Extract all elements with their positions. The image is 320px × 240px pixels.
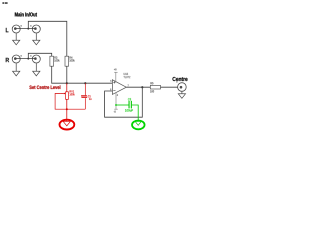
connector J2 L out xyxy=(32,25,40,33)
label TL072 xyxy=(123,76,130,78)
capacitor C3 xyxy=(129,101,131,109)
ground under J1 xyxy=(13,33,20,45)
pin number 6 xyxy=(110,89,111,91)
wire to C2 bottom xyxy=(67,108,86,110)
pin number 8 xyxy=(114,68,116,70)
label C2 value xyxy=(89,98,91,100)
label Set Centre Level xyxy=(29,85,60,89)
ground under J4 xyxy=(33,63,40,76)
connector J1 L tip xyxy=(12,25,20,33)
annotation green ellipse xyxy=(132,121,145,130)
pin number 7 xyxy=(128,85,129,87)
wire green to C3 xyxy=(116,104,129,106)
power pin 8 stub xyxy=(114,72,117,81)
power pin 4 stub xyxy=(114,93,117,110)
junction bus C2 xyxy=(84,82,86,84)
label Centre xyxy=(172,77,187,81)
junction L row xyxy=(27,28,29,30)
label R5 value xyxy=(150,90,154,92)
junction output xyxy=(141,86,143,88)
connector J5 Centre xyxy=(178,83,187,92)
label C2 xyxy=(88,95,91,97)
wire R3 to bus xyxy=(52,66,113,83)
wire R row xyxy=(15,58,35,60)
label R xyxy=(6,58,9,62)
op-amp minus sign xyxy=(113,89,115,91)
pin tick J1 xyxy=(21,25,22,27)
label U1B xyxy=(124,73,128,75)
label R4 value xyxy=(69,59,74,61)
ground under J5 xyxy=(178,91,185,98)
label Main In/Out xyxy=(15,12,37,16)
connector J4 R out xyxy=(32,55,40,63)
capacitor C2 xyxy=(81,83,87,109)
wire R net to R3 xyxy=(28,53,51,58)
op-amp U1B xyxy=(112,80,126,95)
annotation red ellipse xyxy=(60,120,75,130)
pin tick J3 xyxy=(21,55,22,57)
potentiometer RV1 xyxy=(61,83,69,121)
wire L row xyxy=(15,28,35,30)
wire R5 to centre xyxy=(161,86,178,88)
label R4 xyxy=(70,57,73,59)
power label -8 xyxy=(114,111,116,113)
ground under J3 xyxy=(13,63,20,76)
op-amp plus sign xyxy=(113,81,115,83)
wire L net to R4 xyxy=(28,21,67,56)
pin tick J2 xyxy=(30,25,31,27)
label RV1 value xyxy=(70,93,75,95)
wire C3 to green ground xyxy=(132,105,138,121)
label R3 value xyxy=(54,59,59,61)
wire op-amp output xyxy=(126,86,150,88)
ground red under RV1 xyxy=(63,121,70,125)
ground under J2 xyxy=(33,33,40,45)
pin number 5 xyxy=(110,80,111,82)
pin tick J4 xyxy=(30,55,31,57)
junction RV1 bottom xyxy=(66,108,68,110)
label L xyxy=(6,28,9,32)
junction bus RV1 xyxy=(66,82,68,84)
sheet title text xyxy=(2,2,4,4)
label R5 xyxy=(151,82,154,84)
junction green pin4 xyxy=(115,104,117,106)
label RV1 xyxy=(70,90,74,92)
junction R row xyxy=(27,58,29,60)
resistor R4 xyxy=(65,56,69,66)
wire R4 to bus xyxy=(66,66,68,83)
label C3 value xyxy=(125,109,133,111)
label C3 xyxy=(128,98,131,100)
resistor R5 xyxy=(150,85,160,89)
label R3 xyxy=(54,57,57,59)
resistor R3 xyxy=(50,56,54,66)
connector J3 R tip xyxy=(12,55,20,63)
wire RV1 wiper loop xyxy=(55,94,67,110)
wire feedback loop xyxy=(105,87,143,117)
pin number 4 xyxy=(117,94,118,96)
ground green xyxy=(135,121,141,125)
pin tick J5 xyxy=(176,81,177,82)
